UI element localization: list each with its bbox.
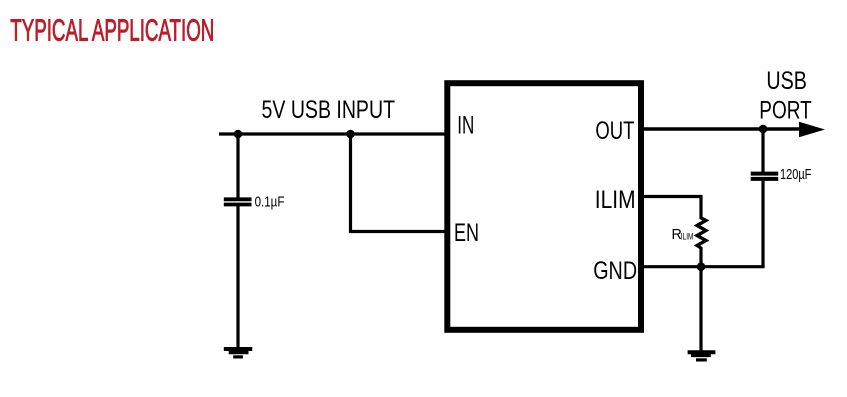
wire: ILIM pin to resistor: [641, 197, 701, 220]
IC U1 body: [447, 83, 641, 330]
wire: GND junction to ground: [699, 267, 702, 352]
svg-text:TYPICAL APPLICATION: TYPICAL APPLICATION: [10, 13, 214, 48]
net label USB PORT: [759, 67, 811, 124]
wire: C1 top lead: [236, 134, 239, 199]
node: input / EN junction: [346, 130, 355, 139]
svg-text:OUT: OUT: [595, 117, 634, 145]
value label RILIM: [672, 227, 694, 243]
capacitor C2: [751, 174, 779, 179]
wire: 5V input rail to IN pin: [219, 132, 447, 135]
svg-text:0.1µF: 0.1µF: [255, 193, 285, 210]
svg-text:USB: USB: [766, 67, 807, 95]
svg-text:ILIM: ILIM: [595, 186, 636, 214]
wire: EN branch (from input rail to EN pin): [351, 134, 448, 232]
wire: C2 bottom lead: [761, 178, 764, 267]
wire: C2 top lead: [761, 129, 764, 175]
node: RILIM / GND junction: [697, 262, 706, 271]
svg-text:120µF: 120µF: [780, 166, 811, 183]
svg-text:GND: GND: [593, 257, 637, 285]
ground (output side): [688, 352, 716, 360]
svg-text:IN: IN: [457, 111, 474, 139]
node: OUT / C2 junction: [759, 125, 768, 134]
wire: C1 bottom lead to ground: [236, 206, 239, 350]
svg-text:5V USB INPUT: 5V USB INPUT: [262, 96, 396, 124]
svg-text:EN: EN: [454, 219, 479, 247]
wire: GND pin net: [641, 265, 765, 268]
svg-text:ILIM: ILIM: [681, 231, 694, 241]
wire: resistor bottom lead: [699, 247, 702, 267]
resistor RILIM: [697, 218, 706, 248]
wire: OUT pin to USB port: [641, 127, 801, 130]
ground (input side): [224, 349, 252, 357]
svg-text:PORT: PORT: [759, 96, 811, 124]
arrowhead: USB port: [799, 122, 825, 137]
capacitor C1: [224, 199, 252, 204]
node: input / C1 junction: [234, 130, 243, 139]
